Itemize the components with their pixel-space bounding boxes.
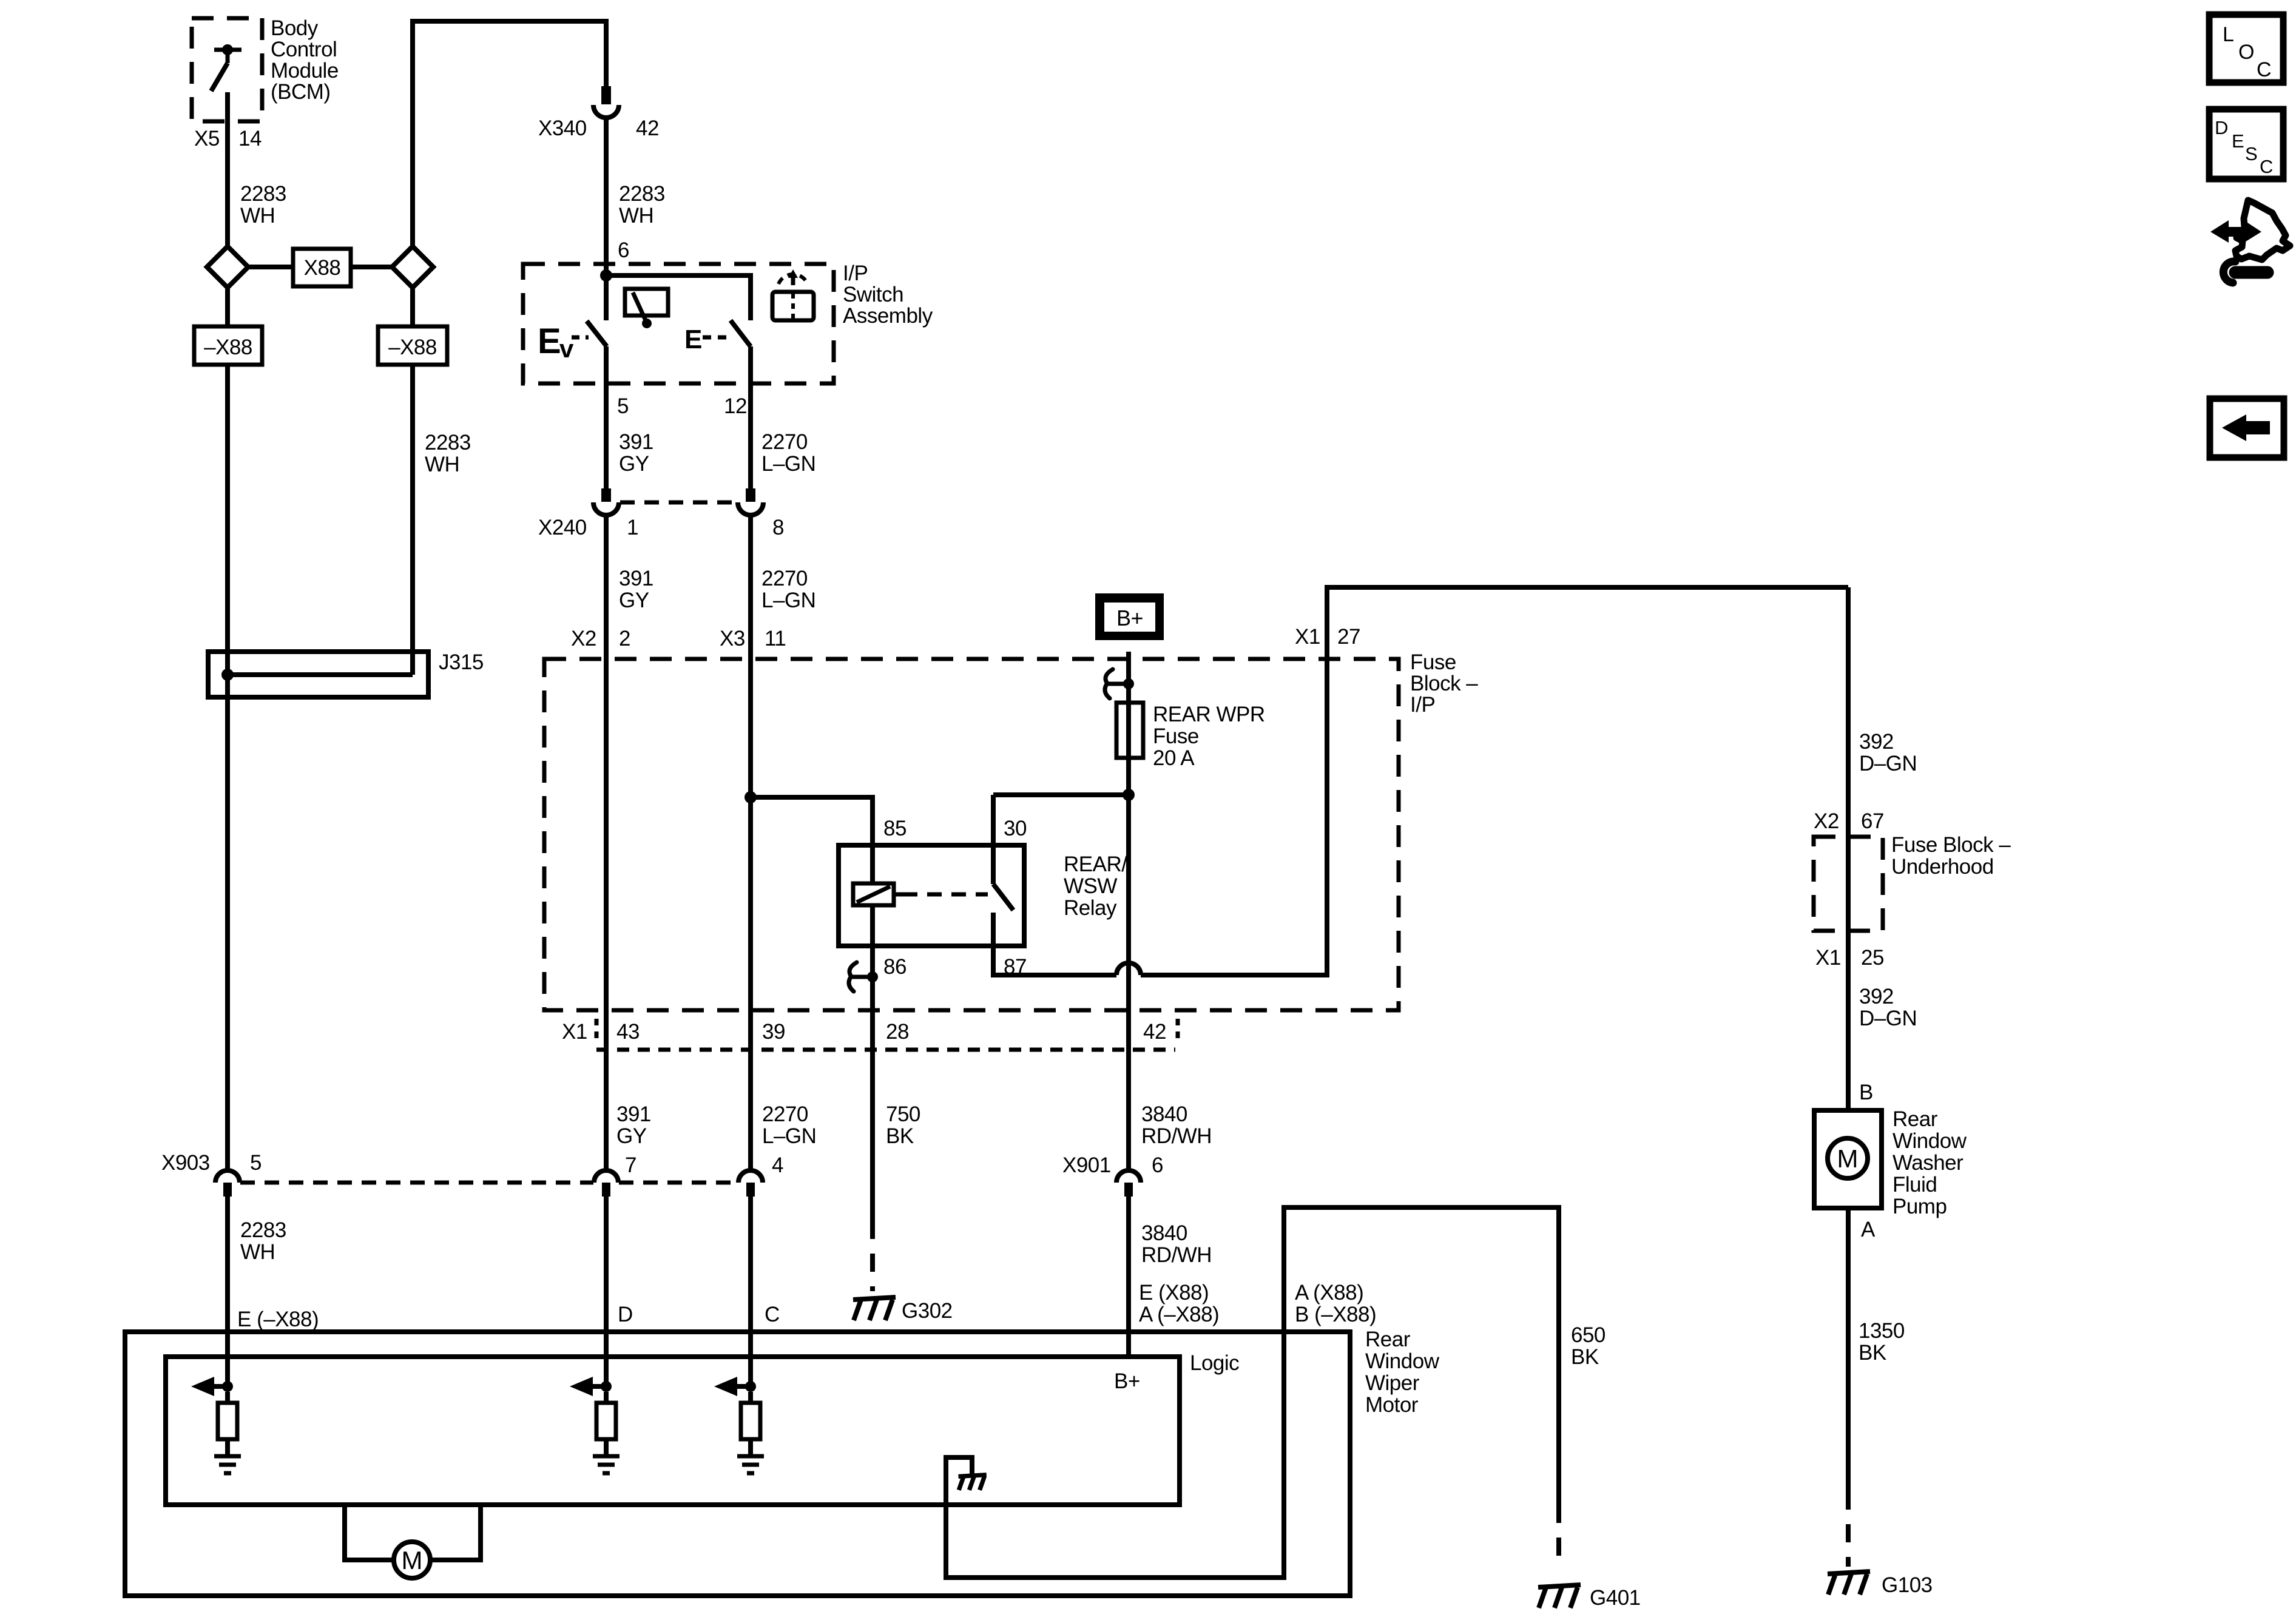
connector X340 female terminal xyxy=(593,86,619,118)
svg-text:X3: X3 xyxy=(720,627,745,650)
svg-text:X1: X1 xyxy=(1815,946,1841,970)
junction fuse output xyxy=(1123,789,1135,801)
svg-text:X240: X240 xyxy=(538,516,587,539)
svg-text:Logic: Logic xyxy=(1190,1351,1239,1375)
svg-text:86: 86 xyxy=(883,955,907,979)
wire motor ground pin path to case pin xyxy=(946,1207,1559,1578)
svg-text:C: C xyxy=(2257,58,2271,81)
svg-text:A (–X88): A (–X88) xyxy=(1139,1303,1219,1326)
svg-text:I/P: I/P xyxy=(1410,693,1435,717)
svg-text:REAR WPR: REAR WPR xyxy=(1153,703,1265,726)
switch wiper (rear wiper switch) blade xyxy=(587,321,607,346)
svg-text:X340: X340 xyxy=(538,116,587,140)
svg-text:2283: 2283 xyxy=(240,182,286,206)
svg-text:650: 650 xyxy=(1571,1323,1606,1347)
svg-text:11: 11 xyxy=(765,627,786,650)
svg-text:8: 8 xyxy=(772,516,784,539)
wire 2270 L-GN down to fuse block xyxy=(748,515,753,1171)
wire top jumper from right diamond to X340 drop xyxy=(413,21,606,246)
washer spray icon xyxy=(772,292,814,320)
relay switch blade xyxy=(993,884,1013,910)
svg-text:RD/WH: RD/WH xyxy=(1141,1124,1212,1148)
svg-text:X1: X1 xyxy=(562,1020,587,1044)
svg-text:Rear: Rear xyxy=(1893,1107,1938,1131)
hook clip at fuse feed xyxy=(1105,669,1129,698)
svg-text:27: 27 xyxy=(1337,625,1360,649)
node diamond splice right xyxy=(392,246,433,288)
svg-text:E (–X88): E (–X88) xyxy=(237,1308,319,1331)
svg-text:WH: WH xyxy=(240,1240,275,1264)
svg-text:WH: WH xyxy=(425,453,459,476)
ground G401 xyxy=(1538,1585,1581,1608)
icon hand outline xyxy=(2235,200,2290,260)
svg-text:BK: BK xyxy=(886,1124,914,1148)
svg-text:Assembly: Assembly xyxy=(843,304,933,328)
wire 2283 WH to motor E xyxy=(225,1197,230,1386)
svg-text:G302: G302 xyxy=(902,1299,953,1323)
wire 392 D-GN right column xyxy=(1846,587,1851,1110)
actuator dashes right switch xyxy=(703,336,731,340)
connector X240 terminal pin 8 xyxy=(738,488,763,515)
svg-text:28: 28 xyxy=(886,1020,909,1044)
BCM dashed box (Body Control Module) xyxy=(192,18,262,121)
svg-text:30: 30 xyxy=(1004,817,1027,840)
svg-text:25: 25 xyxy=(1861,946,1884,970)
svg-text:G401: G401 xyxy=(1590,1586,1641,1610)
B+ power symbol box xyxy=(1095,593,1164,640)
svg-text:E (X88): E (X88) xyxy=(1139,1281,1209,1305)
motor logic box xyxy=(166,1357,1180,1505)
svg-text:X1: X1 xyxy=(1295,625,1320,649)
svg-text:2270: 2270 xyxy=(761,430,808,454)
wire 2283 WH to I/P switch xyxy=(604,118,609,320)
J315 internal tie xyxy=(228,672,413,677)
ground G302 xyxy=(853,1297,896,1320)
relay REAR/WSW box xyxy=(839,845,1024,946)
svg-text:392: 392 xyxy=(1859,730,1894,754)
svg-text:D: D xyxy=(618,1303,633,1326)
svg-text:Underhood: Underhood xyxy=(1891,855,1994,879)
svg-text:(BCM): (BCM) xyxy=(271,80,331,104)
svg-text:Window: Window xyxy=(1365,1349,1440,1373)
relay coil xyxy=(870,845,875,883)
connector X1 dashed face line xyxy=(596,1048,1175,1052)
connector X903 terminal pin 5 xyxy=(215,1170,240,1197)
svg-text:Wiper: Wiper xyxy=(1365,1371,1420,1395)
svg-text:Window: Window xyxy=(1893,1129,1967,1153)
svg-text:1350: 1350 xyxy=(1859,1319,1905,1343)
svg-text:B: B xyxy=(1859,1081,1873,1104)
svg-text:A: A xyxy=(1861,1218,1876,1241)
svg-text:L–GN: L–GN xyxy=(761,452,815,476)
icon adjust arrow overlay right head xyxy=(2229,220,2261,243)
svg-text:E: E xyxy=(538,322,561,361)
svg-text:D: D xyxy=(2215,117,2228,138)
connector -X88 right box xyxy=(378,326,447,365)
icon back arrow box xyxy=(2210,399,2284,457)
connector X240 dashed link xyxy=(620,501,737,505)
wire 750 BK relay 86 down xyxy=(870,946,875,1221)
svg-text:B (–X88): B (–X88) xyxy=(1295,1303,1376,1326)
wire 3840 RD/WH to motor B+ xyxy=(1126,1197,1131,1357)
motor M circle xyxy=(394,1542,430,1578)
svg-text:A (X88): A (X88) xyxy=(1295,1281,1363,1305)
wire B+ feed down to fuse xyxy=(1126,652,1131,795)
svg-text:Washer: Washer xyxy=(1893,1151,1963,1175)
svg-text:L: L xyxy=(2223,23,2234,46)
svg-text:WSW: WSW xyxy=(1064,874,1117,898)
svg-text:BK: BK xyxy=(1571,1345,1599,1369)
svg-text:J315: J315 xyxy=(439,650,484,674)
wiper park icon rect with diagonal xyxy=(625,289,668,316)
wire tap to relay pin 85 xyxy=(751,797,873,845)
ground G103 xyxy=(1828,1571,1870,1595)
svg-text:12: 12 xyxy=(724,394,747,418)
svg-text:M: M xyxy=(1837,1144,1859,1173)
wire bump crossover at 3840 wire xyxy=(1116,963,1141,975)
connector X903 dashed line xyxy=(240,1181,738,1185)
svg-text:Relay: Relay xyxy=(1064,896,1117,920)
junction at fuse feed xyxy=(1123,678,1134,689)
svg-text:X903: X903 xyxy=(161,1151,210,1175)
wire 1350 BK pump to ground xyxy=(1846,1208,1851,1491)
svg-text:Switch: Switch xyxy=(843,283,903,306)
svg-text:6: 6 xyxy=(618,238,629,262)
svg-text:Motor: Motor xyxy=(1365,1393,1419,1417)
icon LOC box xyxy=(2209,15,2283,83)
icon DESC box xyxy=(2209,109,2283,179)
connector X903 terminal pin 7 xyxy=(594,1170,618,1197)
node junction inside switch assembly xyxy=(600,269,612,282)
svg-text:X901: X901 xyxy=(1062,1153,1111,1177)
wire 750 BK dashed to ground xyxy=(870,1221,875,1291)
logic pull-down branch C xyxy=(714,1377,764,1473)
wire diamond to X88 box xyxy=(248,265,293,269)
svg-text:Fluid: Fluid xyxy=(1893,1173,1937,1197)
svg-text:GY: GY xyxy=(619,452,649,476)
svg-text:L–GN: L–GN xyxy=(762,1124,816,1148)
actuator dashes left switch xyxy=(572,336,589,340)
connector X88 box xyxy=(293,249,351,286)
svg-text:C: C xyxy=(2260,156,2273,177)
svg-text:6: 6 xyxy=(1152,1153,1163,1177)
svg-text:1: 1 xyxy=(627,516,638,539)
wire 391 GY to motor D xyxy=(604,1197,609,1386)
wire fuse output to relay 30 xyxy=(993,792,1129,797)
svg-text:3840: 3840 xyxy=(1141,1102,1187,1126)
svg-text:O: O xyxy=(2238,41,2254,64)
svg-text:42: 42 xyxy=(1143,1020,1166,1044)
logic pull-down branch D xyxy=(570,1377,620,1473)
wire 2283 WH from BCM X5-14 down to diamond xyxy=(225,92,230,246)
svg-text:2270: 2270 xyxy=(762,1102,808,1126)
svg-text:WH: WH xyxy=(240,204,275,228)
svg-text:67: 67 xyxy=(1861,809,1884,833)
relay fixed contact 87 xyxy=(991,913,996,946)
svg-text:Fuse Block –: Fuse Block – xyxy=(1891,833,2011,857)
svg-text:85: 85 xyxy=(883,817,907,840)
svg-text:WH: WH xyxy=(619,204,653,228)
pump motor M circle xyxy=(1828,1138,1868,1178)
svg-text:750: 750 xyxy=(886,1102,920,1126)
svg-text:391: 391 xyxy=(619,430,653,454)
node diamond splice left xyxy=(207,246,248,288)
svg-text:E: E xyxy=(2232,130,2244,152)
svg-text:5: 5 xyxy=(250,1151,262,1175)
logic internal ground hook xyxy=(946,1457,972,1505)
svg-text:2270: 2270 xyxy=(761,567,808,590)
svg-text:BK: BK xyxy=(1859,1341,1886,1365)
fuse REAR WPR 20A xyxy=(1116,703,1143,758)
wire 391 GY down to fuse block xyxy=(604,515,609,1171)
svg-text:2283: 2283 xyxy=(619,182,665,206)
svg-text:39: 39 xyxy=(762,1020,785,1044)
svg-text:Control: Control xyxy=(271,38,337,61)
svg-text:Pump: Pump xyxy=(1893,1195,1947,1218)
svg-text:X2: X2 xyxy=(1814,809,1839,833)
svg-text:391: 391 xyxy=(619,567,653,590)
svg-text:REAR/: REAR/ xyxy=(1064,852,1127,876)
wire internal feed to washer switch xyxy=(606,275,751,320)
junction tap to relay coil 85 xyxy=(745,791,757,803)
svg-text:Body: Body xyxy=(271,16,319,40)
svg-text:S: S xyxy=(2245,143,2257,164)
wire left diamond down xyxy=(225,288,230,326)
I/P Switch Assembly dashed box xyxy=(523,264,834,383)
wire 391 GY switch to X240 xyxy=(604,346,609,488)
connector X901 terminal pin 6 xyxy=(1116,1170,1141,1197)
wire 2270 L-GN to motor C xyxy=(748,1197,753,1386)
svg-text:X5: X5 xyxy=(194,127,220,150)
wire 2270 L-GN switch to X240 xyxy=(748,346,753,488)
svg-text:392: 392 xyxy=(1859,985,1894,1008)
svg-text:M: M xyxy=(402,1546,423,1575)
svg-text:C: C xyxy=(765,1303,780,1326)
svg-text:–X88: –X88 xyxy=(388,336,437,359)
logic pull-down branch E xyxy=(191,1377,241,1473)
connector X903 terminal pin 4 xyxy=(738,1170,763,1197)
svg-text:GY: GY xyxy=(616,1124,647,1148)
Rear Window Wiper Motor outer box xyxy=(125,1332,1350,1596)
icon adjust double arrow xyxy=(2210,220,2261,243)
svg-text:2283: 2283 xyxy=(240,1218,286,1242)
svg-text:Fuse: Fuse xyxy=(1153,724,1199,748)
switch washer blade xyxy=(731,320,751,346)
wire 650 BK dashed to ground xyxy=(1556,1505,1561,1567)
svg-text:4: 4 xyxy=(772,1153,783,1177)
wire X88 box to right diamond xyxy=(351,265,392,269)
svg-text:–X88: –X88 xyxy=(204,336,252,359)
svg-text:391: 391 xyxy=(616,1102,651,1126)
splice J315 box xyxy=(208,652,428,697)
motor armature loop xyxy=(345,1505,481,1560)
wire 1350 BK dashed to ground xyxy=(1846,1491,1851,1567)
svg-text:2: 2 xyxy=(619,627,630,650)
svg-text:L–GN: L–GN xyxy=(761,589,815,612)
svg-text:7: 7 xyxy=(625,1153,636,1177)
Rear Window Washer Fluid Pump box xyxy=(1814,1110,1882,1208)
relay switch pin 30 riser xyxy=(991,795,996,884)
svg-text:X2: X2 xyxy=(571,627,596,650)
svg-text:I/P: I/P xyxy=(843,262,868,285)
svg-text:Block –: Block – xyxy=(1410,672,1478,695)
wire right diamond down xyxy=(410,288,415,326)
svg-text:2283: 2283 xyxy=(425,431,471,454)
svg-text:43: 43 xyxy=(616,1020,640,1044)
svg-text:Fuse: Fuse xyxy=(1410,650,1456,674)
relay actuator dashed link xyxy=(894,893,903,897)
BCM internal driver switch xyxy=(214,50,241,63)
svg-text:D–GN: D–GN xyxy=(1859,752,1917,775)
connector X240 terminal pin 1 xyxy=(593,488,619,515)
svg-text:D–GN: D–GN xyxy=(1859,1007,1917,1030)
hook clip at relay 86 xyxy=(849,962,873,991)
wire 2283 WH left branch down through J315 to X903 xyxy=(225,365,230,1171)
svg-text:G103: G103 xyxy=(1882,1573,1933,1597)
svg-text:GY: GY xyxy=(619,589,649,612)
svg-text:B+: B+ xyxy=(1114,1369,1140,1393)
svg-text:14: 14 xyxy=(238,127,262,150)
wire relay 87 output to fuse block pin 27 xyxy=(993,587,1848,975)
Fuse Block I/P dashed outline xyxy=(544,659,1399,1010)
svg-text:E: E xyxy=(684,325,702,354)
svg-text:Module: Module xyxy=(271,59,339,83)
svg-text:B+: B+ xyxy=(1116,606,1143,630)
connector -X88 left box xyxy=(194,326,262,365)
svg-text:RD/WH: RD/WH xyxy=(1141,1243,1212,1267)
svg-text:Rear: Rear xyxy=(1365,1328,1411,1351)
svg-text:20 A: 20 A xyxy=(1153,746,1195,770)
svg-text:3840: 3840 xyxy=(1141,1221,1187,1245)
wire 3840 RD/WH fuse output down xyxy=(1126,795,1131,1171)
icon wrench xyxy=(2235,266,2267,279)
Fuse Block Underhood dashed box xyxy=(1814,837,1883,931)
junction J315 xyxy=(221,669,234,681)
svg-text:5: 5 xyxy=(617,394,629,418)
junction at relay 86 xyxy=(867,971,878,982)
svg-text:42: 42 xyxy=(636,116,659,140)
wire 2283 WH right branch down to J315 xyxy=(410,365,415,675)
svg-text:X88: X88 xyxy=(304,256,341,280)
